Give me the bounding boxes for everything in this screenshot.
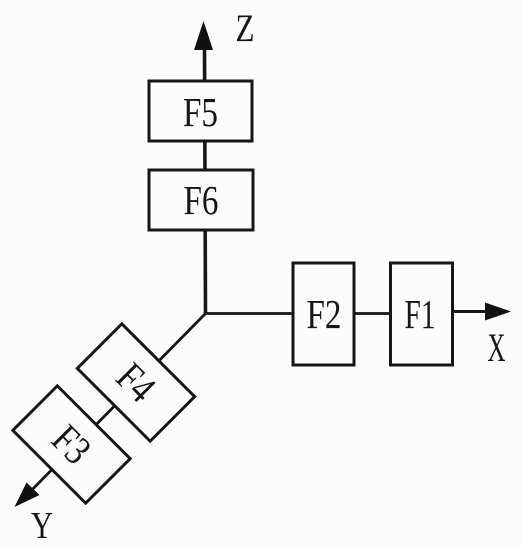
svg-text:F5: F5 [183, 89, 218, 135]
svg-text:F2: F2 [307, 291, 342, 337]
block F3 (rotated 45deg) [13, 386, 130, 503]
svg-text:Z: Z [236, 7, 255, 50]
wire Y axis diagonal (junction to Y arrowhead) [20, 314, 206, 503]
block F4 (rotated 45deg) [77, 324, 194, 441]
block F5 [149, 81, 252, 141]
arrowhead Z [194, 21, 213, 50]
wire X axis horizontal (junction to F1) [204, 312, 454, 315]
block F6 [149, 170, 253, 230]
svg-text:X: X [488, 325, 506, 370]
wire X axis segment (F1 to X arrowhead) [452, 310, 489, 313]
block F1 [391, 263, 453, 365]
svg-text:F6: F6 [184, 177, 219, 223]
wire Z axis vertical (junction to Z arrowhead) [205, 47, 206, 314]
svg-text:Y: Y [31, 505, 53, 547]
block F2 [293, 263, 354, 365]
arrowhead Y [15, 483, 40, 508]
svg-text:F1: F1 [405, 291, 436, 337]
arrowhead X [485, 303, 511, 321]
